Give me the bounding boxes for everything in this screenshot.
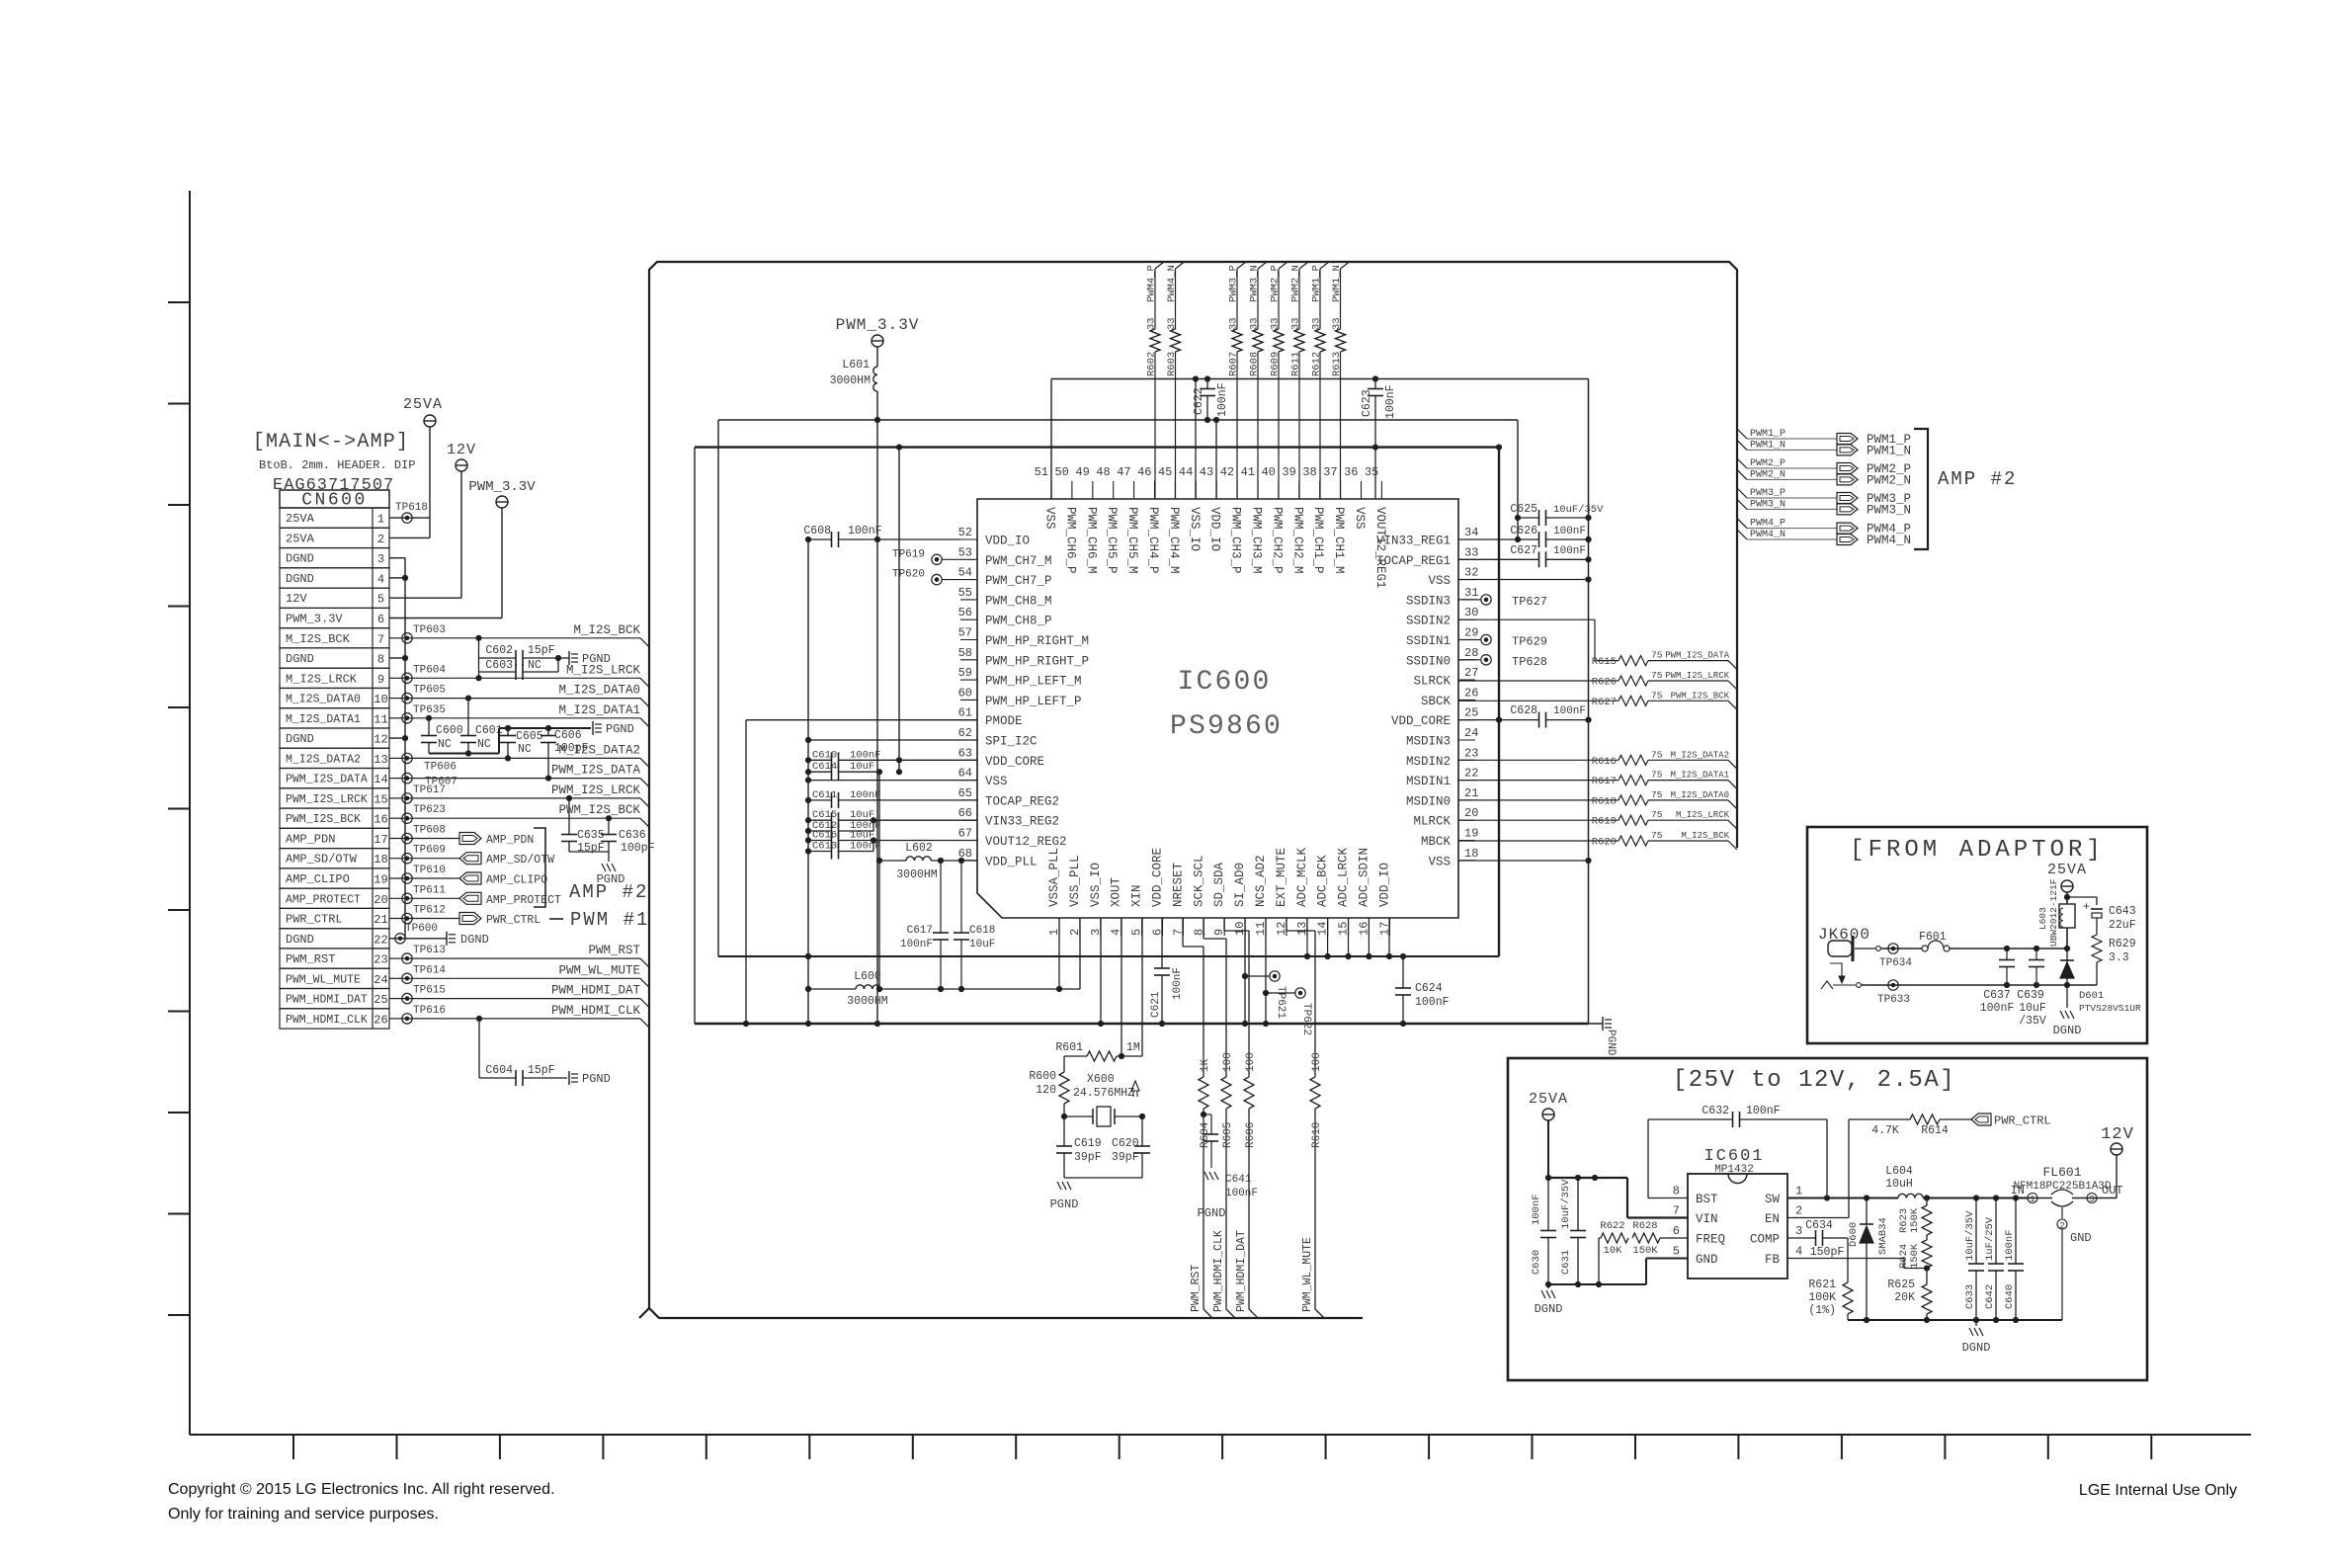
IC600 pin 39	[1298, 481, 1300, 499]
CN600 pin 3 DGND	[280, 548, 389, 568]
svg-text:75: 75	[1651, 789, 1663, 800]
svg-text:MSDIN2: MSDIN2	[1406, 755, 1451, 769]
wire riser x1536 VIN33	[1517, 420, 1519, 539]
wire pin5 XIN riser	[1141, 918, 1143, 1056]
svg-text:SMAB34: SMAB34	[1877, 1217, 1889, 1255]
wire riser x910 to caps	[898, 448, 900, 773]
svg-text:MSDIN1: MSDIN1	[1406, 775, 1451, 788]
svg-text:4: 4	[1795, 1245, 1802, 1259]
IC600 pin 60 PWM_HP_LEFT_P	[960, 699, 977, 701]
svg-text:47: 47	[1117, 465, 1130, 479]
svg-text:MBCK: MBCK	[1421, 835, 1452, 849]
filter gnd pin 2	[2061, 1207, 2063, 1218]
svg-text:M_I2S_DATA2: M_I2S_DATA2	[1671, 750, 1729, 760]
inductor L603 UBW2012-121F	[2059, 904, 2075, 928]
IC600 pin 6 VDD_CORE	[1162, 918, 1164, 936]
IC600 pin 24 MSDIN3	[1458, 739, 1475, 741]
capacitor C619 39pF	[1056, 1145, 1072, 1147]
test point TP612	[402, 913, 412, 923]
svg-text:39pF: 39pF	[1112, 1151, 1139, 1164]
svg-text:15pF: 15pF	[528, 1064, 555, 1077]
svg-text:PWM_CH7_M: PWM_CH7_M	[985, 554, 1052, 568]
svg-text:25VA: 25VA	[286, 532, 315, 545]
capacitor C617 100nF	[940, 861, 942, 933]
svg-text:18: 18	[1464, 847, 1478, 861]
wire riser x1607 gnd right	[1588, 379, 1590, 1025]
svg-text:PWM_I2S_BCK: PWM_I2S_BCK	[558, 803, 640, 817]
svg-text:C614: C614	[812, 761, 837, 773]
svg-text:PWM_CH8_M: PWM_CH8_M	[985, 594, 1052, 608]
svg-text:C600: C600	[436, 724, 463, 737]
svg-text:R608: R608	[1249, 352, 1261, 376]
svg-text:PWM4_P: PWM4_P	[1750, 519, 1785, 530]
svg-text:XOUT: XOUT	[1110, 876, 1123, 907]
svg-text:5: 5	[1673, 1245, 1680, 1259]
test point TP606	[402, 753, 412, 763]
IC600 pin 15 ADC_LRCK	[1348, 918, 1350, 936]
IC600 pin 59 PWM_HP_LEFT_M	[960, 679, 977, 681]
wire net PWM_RST	[389, 957, 405, 959]
svg-text:PWM_CH6_P: PWM_CH6_P	[1063, 507, 1077, 574]
ground PGND crystal	[1057, 1182, 1061, 1190]
svg-text:TP618: TP618	[395, 502, 428, 514]
resistor R607 33 net PWM3_P	[1237, 262, 1246, 269]
svg-text:33: 33	[1166, 317, 1178, 330]
svg-text:56: 56	[958, 606, 972, 619]
svg-text:C633: C633	[1964, 1284, 1976, 1309]
arrow mark	[1131, 1081, 1139, 1091]
svg-text:R603: R603	[1166, 352, 1178, 376]
IC600 pin 54 PWM_CH7_P	[960, 579, 977, 581]
wire rail H3 ground thick	[695, 1023, 1589, 1025]
capacitor C628 100nF	[1458, 719, 1539, 721]
resistor R625 20K	[1926, 1269, 1928, 1285]
svg-text:D601: D601	[2079, 990, 2104, 1002]
svg-text:59: 59	[958, 666, 972, 680]
wire rail2 PWM3.3V horizontal	[718, 419, 1518, 421]
IC600 pin 9 SD_SDA	[1223, 918, 1225, 936]
svg-text:12V: 12V	[2101, 1125, 2134, 1144]
svg-text:R612: R612	[1311, 352, 1323, 376]
IC600 pin 66 VIN33_REG2	[960, 819, 977, 821]
svg-text:33: 33	[1290, 317, 1302, 330]
diode D601 PTVS28VS1UR	[2066, 949, 2068, 985]
IC600 pin 42	[1236, 481, 1238, 499]
svg-text:21: 21	[1464, 786, 1478, 800]
test point TP605	[402, 693, 412, 702]
wire PMODE	[746, 719, 977, 721]
svg-text:38: 38	[1302, 465, 1316, 479]
svg-text:C606: C606	[554, 729, 582, 742]
svg-text:PGND: PGND	[582, 652, 611, 666]
svg-text:C632: C632	[1702, 1105, 1729, 1117]
IC600 pin 36	[1361, 481, 1363, 499]
svg-text:L601: L601	[842, 359, 870, 371]
svg-text:29: 29	[1464, 626, 1478, 640]
svg-text:13: 13	[374, 753, 387, 767]
svg-text:33: 33	[1249, 317, 1261, 330]
IC600 pin 2 VSS_PLL	[1079, 918, 1081, 936]
svg-text:C631: C631	[1560, 1250, 1572, 1275]
svg-text:30: 30	[1464, 606, 1478, 619]
svg-text:MP1432: MP1432	[1714, 1164, 1754, 1176]
svg-text:R629: R629	[2109, 938, 2136, 950]
svg-text:NC: NC	[438, 738, 452, 751]
svg-text:PWM3_N: PWM3_N	[1750, 499, 1785, 510]
svg-text:PWM_WL_MUTE: PWM_WL_MUTE	[286, 973, 361, 986]
svg-text:PWM_HP_RIGHT_P: PWM_HP_RIGHT_P	[985, 654, 1089, 668]
svg-text:100: 100	[1311, 1052, 1323, 1072]
svg-text:100nF: 100nF	[850, 789, 881, 801]
wire riser pin44 VSS_IO	[1195, 379, 1197, 500]
IC600 pin 14 ADC_BCK	[1327, 918, 1329, 936]
IC600 pin 16 ADC_SDIN	[1369, 918, 1370, 936]
resistor R613 33 net PWM1_N	[1341, 262, 1350, 269]
svg-text:TP623: TP623	[413, 804, 446, 816]
svg-text:DGND: DGND	[1962, 1341, 1991, 1355]
svg-text:4: 4	[377, 572, 384, 586]
jack sleeve contact	[1821, 981, 1833, 989]
capacitor C613 100nF	[808, 851, 832, 853]
wire AMP_PROTECT	[389, 897, 459, 899]
capacitor C601 NC	[467, 699, 469, 736]
svg-text:L603: L603	[2037, 907, 2048, 930]
svg-text:NFM18PC225B1A3D: NFM18PC225B1A3D	[2013, 1181, 2111, 1193]
svg-text:18: 18	[374, 853, 387, 867]
CN600 pin 5 12V	[280, 588, 389, 608]
svg-text:75: 75	[1651, 670, 1663, 681]
svg-text:PWM_HDMI_CLK: PWM_HDMI_CLK	[1212, 1230, 1225, 1312]
svg-text:DGND: DGND	[1535, 1302, 1563, 1316]
capacitor C623 100nF	[1374, 379, 1376, 389]
svg-text:C603: C603	[485, 659, 513, 672]
wire 25VA branch to C643	[2067, 896, 2097, 898]
IC600 pin 53 PWM_CH7_M	[960, 558, 977, 560]
svg-text:VSS_IO: VSS_IO	[1188, 507, 1202, 551]
svg-text:DGND: DGND	[286, 652, 314, 666]
wire crystal gnd rail	[1064, 1177, 1142, 1179]
svg-text:[25V to 12V, 2.5A]: [25V to 12V, 2.5A]	[1673, 1067, 1955, 1094]
wire ADC pin risers	[1306, 918, 1308, 956]
IC600 pin 11 NCS_AD2	[1265, 918, 1267, 936]
svg-text:FB: FB	[1765, 1253, 1781, 1267]
test point TP629	[1458, 639, 1480, 641]
wire riser x1517	[1498, 448, 1500, 956]
svg-text:2: 2	[377, 533, 384, 546]
IC600 pin 35	[1380, 481, 1382, 499]
svg-text:R619: R619	[1592, 816, 1617, 828]
resistor R616 75 net M_I2S_DATA2	[1458, 759, 1619, 761]
svg-text:4.7K: 4.7K	[1871, 1124, 1899, 1137]
svg-text:[MAIN<->AMP]: [MAIN<->AMP]	[253, 431, 409, 454]
capacitor C632 100nF bootstrap	[1648, 1197, 1688, 1199]
inductor L602 3000HM	[879, 860, 906, 862]
DGND bus wire	[404, 558, 406, 939]
svg-text:PWM_CH3_M: PWM_CH3_M	[1250, 507, 1264, 574]
test point TP608	[402, 833, 412, 843]
svg-text:FL601: FL601	[2042, 1165, 2081, 1180]
resistor R617 75 net M_I2S_DATA1	[1458, 780, 1619, 782]
svg-text:10: 10	[374, 693, 387, 706]
CN600 pin 21 PWR_CTRL	[280, 908, 389, 928]
svg-text:27: 27	[1464, 666, 1478, 680]
IC600 pin 52 VDD_IO	[960, 538, 977, 540]
IC600 pin 7 NRESET	[1182, 918, 1184, 936]
svg-text:PWM_CH2_P: PWM_CH2_P	[1270, 507, 1284, 574]
wire net M_I2S_DATA1	[389, 717, 405, 719]
svg-text:C619: C619	[1074, 1137, 1102, 1150]
svg-text:C621: C621	[1150, 991, 1162, 1018]
op-amp U1 IC600 PS9860 body	[977, 499, 1458, 918]
svg-text:15pF: 15pF	[577, 842, 605, 855]
IC600 pin 26 SBCK	[1458, 699, 1475, 701]
svg-text:46: 46	[1137, 465, 1151, 479]
io flag PWM2_N to AMP#2	[1737, 469, 1747, 479]
IC600 pin 19 MBCK	[1458, 840, 1475, 842]
svg-text:TP605: TP605	[413, 685, 446, 697]
wire rail1 VSS top	[1051, 378, 1589, 380]
wire riser PMODE x755	[745, 720, 747, 1024]
svg-text:OUT: OUT	[2102, 1184, 2123, 1197]
svg-text:AMP_SD/OTW: AMP_SD/OTW	[486, 854, 554, 867]
svg-text:42: 42	[1220, 465, 1234, 479]
CN600 pin 11 M_I2S_DATA1	[280, 708, 389, 728]
svg-text:PWM_HDMI_DAT: PWM_HDMI_DAT	[286, 994, 368, 1007]
capacitor C606 100pF	[547, 728, 549, 736]
IC600 pin 34 VIN33_REG1	[1458, 538, 1475, 540]
svg-text:20K: 20K	[1894, 1291, 1915, 1304]
svg-text:C608: C608	[803, 525, 831, 537]
capacitor C611 100nF	[808, 799, 832, 801]
svg-text:20: 20	[374, 893, 387, 907]
svg-text:PWM2_N: PWM2_N	[1750, 469, 1785, 480]
wire riser pin43 VDD_IO	[1215, 420, 1217, 499]
svg-text:PWM1_P: PWM1_P	[1750, 429, 1785, 440]
svg-text:33: 33	[1331, 317, 1343, 330]
svg-text:R627: R627	[1592, 697, 1617, 708]
IC600 pin 44	[1195, 481, 1197, 499]
svg-text:PWR_CTRL: PWR_CTRL	[486, 914, 540, 927]
io flag AMP_PDN	[459, 833, 481, 845]
svg-text:C642: C642	[1984, 1284, 1996, 1309]
svg-text:TP621: TP621	[1275, 986, 1287, 1019]
bracket AMP #2 right	[1914, 429, 1928, 549]
svg-text:AMP_PROTECT: AMP_PROTECT	[486, 894, 561, 907]
svg-text:TP606: TP606	[424, 761, 457, 773]
svg-text:M_I2S_DATA1: M_I2S_DATA1	[286, 713, 361, 726]
box FROM ADAPTOR	[1807, 827, 2147, 1043]
svg-text:TP600: TP600	[405, 923, 438, 935]
CN600 pin 20 AMP_PROTECT	[280, 888, 389, 908]
svg-text:PGND: PGND	[597, 872, 625, 886]
svg-text:35: 35	[1365, 465, 1378, 479]
svg-text:100nF: 100nF	[1172, 967, 1184, 1000]
svg-text:37: 37	[1323, 465, 1337, 479]
IC600 pin 41	[1257, 481, 1259, 499]
svg-text:75: 75	[1651, 650, 1663, 661]
resistor R620 75 net M_I2S_BCK	[1458, 840, 1619, 842]
svg-text:TP609: TP609	[413, 845, 446, 857]
svg-text:16: 16	[374, 813, 387, 827]
inductor L601 3000HM	[876, 347, 878, 367]
svg-text:65: 65	[958, 786, 972, 800]
svg-text:DGND: DGND	[286, 732, 314, 746]
IC600 pin 10 SI_AD0	[1244, 918, 1246, 936]
wire SSDIN2 to R615	[1458, 619, 1595, 620]
CN600 pin 14 PWM_I2S_DATA	[280, 769, 389, 788]
wire riser x727	[717, 420, 719, 956]
svg-text:C639: C639	[2017, 989, 2044, 1002]
capacitor C635 15pF	[568, 798, 570, 835]
svg-text:IN: IN	[2011, 1184, 2025, 1197]
IC600 pin 46	[1154, 481, 1156, 499]
svg-text:51: 51	[1035, 465, 1048, 479]
svg-text:PWM3_P: PWM3_P	[1228, 265, 1240, 302]
svg-text:PGND: PGND	[606, 722, 634, 736]
CN600 pin 2 25VA	[280, 528, 389, 547]
CN600 pin 1 25VA	[280, 508, 389, 528]
test point TP613	[402, 953, 412, 963]
wire AMP_SD/OTW	[389, 858, 459, 860]
wire AMP_CLIPO	[389, 877, 459, 879]
svg-text:3: 3	[2089, 1195, 2094, 1204]
svg-text:PWM_RST: PWM_RST	[588, 944, 640, 957]
resistor R600 120	[1063, 1056, 1065, 1072]
svg-text:54: 54	[958, 566, 972, 580]
svg-text:TP603: TP603	[413, 624, 446, 636]
IC600 pin 61 PMODE	[960, 719, 977, 721]
svg-text:PWM_I2S_LRCK: PWM_I2S_LRCK	[551, 784, 641, 797]
svg-text:M_I2S_DATA2: M_I2S_DATA2	[286, 753, 361, 766]
wire net M_I2S_BCK	[389, 637, 405, 639]
svg-text:TP616: TP616	[413, 1005, 446, 1017]
svg-text:SSDIN2: SSDIN2	[1406, 615, 1451, 628]
svg-text:39pF: 39pF	[1074, 1151, 1102, 1164]
svg-text:61: 61	[958, 706, 972, 720]
svg-text:C626: C626	[1510, 525, 1537, 537]
crystal X600 24.576MHZ	[1064, 1115, 1093, 1117]
wire FB	[1787, 1258, 1904, 1260]
svg-text:12V: 12V	[286, 592, 307, 606]
svg-text:L604: L604	[1885, 1165, 1913, 1178]
svg-text:LGE Internal Use Only: LGE Internal Use Only	[2079, 1482, 2237, 1499]
wire bottom gnd rail reg	[1848, 1319, 2062, 1321]
svg-text:BtoB. 2mm. HEADER. DIP: BtoB. 2mm. HEADER. DIP	[259, 458, 415, 472]
IC600 pin 63 VDD_CORE	[960, 759, 977, 761]
IC600 pin 64 VSS	[960, 780, 977, 782]
resistor R624 150K	[1926, 1235, 1928, 1240]
IC600 pin 68 VDD_PLL	[960, 860, 977, 862]
resistor R621 100K 1%	[1847, 1238, 1849, 1282]
resistor R608 33 net PWM3_N	[1258, 262, 1267, 269]
svg-text:TOCAP_REG2: TOCAP_REG2	[985, 794, 1059, 808]
svg-text:C643: C643	[2109, 905, 2136, 918]
svg-text:39: 39	[1282, 465, 1295, 479]
svg-text:VDD_CORE: VDD_CORE	[1151, 848, 1165, 907]
svg-text:C637: C637	[1983, 989, 2011, 1002]
svg-text:TP611: TP611	[413, 884, 446, 896]
svg-text:PWM_I2S_DATA: PWM_I2S_DATA	[551, 764, 641, 778]
wire pin3 riser	[1100, 918, 1102, 1024]
svg-text:L602: L602	[905, 842, 933, 855]
svg-text:SLRCK: SLRCK	[1413, 675, 1451, 689]
svg-text:AMP_PROTECT: AMP_PROTECT	[286, 893, 361, 906]
ground DGND at pin22	[405, 938, 447, 940]
svg-text:PWM_CH4_P: PWM_CH4_P	[1146, 507, 1160, 574]
wire rail3 VOUT12 thick	[695, 446, 1499, 448]
wire SPI_I2C	[808, 739, 977, 741]
svg-text:SSDIN0: SSDIN0	[1406, 654, 1451, 668]
IC600 pin 5 XIN	[1141, 918, 1143, 936]
svg-text:PWM_3.3V: PWM_3.3V	[286, 613, 343, 626]
svg-text:ADC_BCK: ADC_BCK	[1316, 855, 1330, 907]
svg-text:PWM #1: PWM #1	[570, 909, 649, 931]
IC600 pin 38	[1319, 481, 1321, 499]
svg-text:IC600: IC600	[1177, 667, 1271, 698]
svg-text:M_I2S_DATA0: M_I2S_DATA0	[558, 684, 640, 698]
svg-text:PWM_RST: PWM_RST	[286, 952, 335, 966]
io flag AMP_PROTECT	[459, 892, 481, 904]
wire EN / resistor R614 4.7K	[1787, 1217, 1849, 1219]
svg-text:60: 60	[958, 686, 972, 700]
svg-text:100pF: 100pF	[621, 842, 655, 855]
CN600 pin 4 DGND	[280, 568, 389, 588]
capacitor C624 100nF	[1402, 956, 1404, 988]
svg-text:DGND: DGND	[286, 933, 314, 947]
connector CN600 table	[280, 490, 389, 508]
svg-text:PWM_I2S_DATA: PWM_I2S_DATA	[286, 774, 368, 786]
wire VIN thick	[1548, 1177, 1627, 1179]
wire net M_I2S_DATA0	[389, 698, 405, 700]
svg-text:DGND: DGND	[286, 552, 314, 566]
svg-text:20: 20	[1464, 806, 1478, 820]
svg-text:11: 11	[374, 712, 387, 726]
svg-text:75: 75	[1651, 830, 1663, 841]
svg-text:M_I2S_BCK: M_I2S_BCK	[1681, 831, 1729, 841]
svg-text:SW: SW	[1765, 1193, 1781, 1206]
svg-text:VDD_IO: VDD_IO	[985, 535, 1030, 548]
svg-text:7: 7	[377, 632, 384, 646]
svg-text:NCS_AD2: NCS_AD2	[1254, 855, 1268, 907]
svg-text:TP619: TP619	[892, 548, 925, 560]
svg-text:DGND: DGND	[286, 572, 314, 586]
svg-text:100nF: 100nF	[2004, 1229, 2016, 1261]
io flag PWM1_P to AMP#2	[1737, 429, 1747, 439]
wire pin2 riser	[1079, 918, 1081, 989]
svg-text:TP613: TP613	[413, 945, 446, 956]
IC600 pin 55 PWM_CH8_M	[960, 599, 977, 601]
svg-text:PGND: PGND	[582, 1072, 611, 1086]
capacitor C633 10uF/35V	[1973, 1195, 1979, 1200]
IC600 pin 18 VSS	[1458, 860, 1475, 862]
svg-text:23: 23	[1464, 746, 1478, 760]
CN600 pin 18 AMP_SD/OTW	[280, 849, 389, 868]
svg-text:Copyright © 2015 LG Electronic: Copyright © 2015 LG Electronics Inc. All…	[168, 1481, 555, 1498]
svg-text:TP628: TP628	[1512, 655, 1547, 669]
svg-text:VSS: VSS	[1428, 855, 1451, 868]
svg-text:PWM_WL_MUTE: PWM_WL_MUTE	[1301, 1237, 1314, 1312]
svg-text:2: 2	[1795, 1204, 1802, 1218]
CN600 pin 16 PWM_I2S_BCK	[280, 808, 389, 828]
svg-text:NC: NC	[477, 738, 491, 751]
svg-text:52: 52	[958, 526, 972, 539]
io flag PWM3_N to AMP#2	[1737, 499, 1747, 509]
svg-text:/35V: /35V	[2019, 1015, 2046, 1028]
CN600 pin 19 AMP_CLIPO	[280, 868, 389, 888]
IC600 pin 4 XOUT	[1121, 918, 1122, 936]
IC600 pin 25 VDD_CORE	[1458, 719, 1475, 721]
IC600 pin 32 VSS	[1458, 579, 1475, 581]
